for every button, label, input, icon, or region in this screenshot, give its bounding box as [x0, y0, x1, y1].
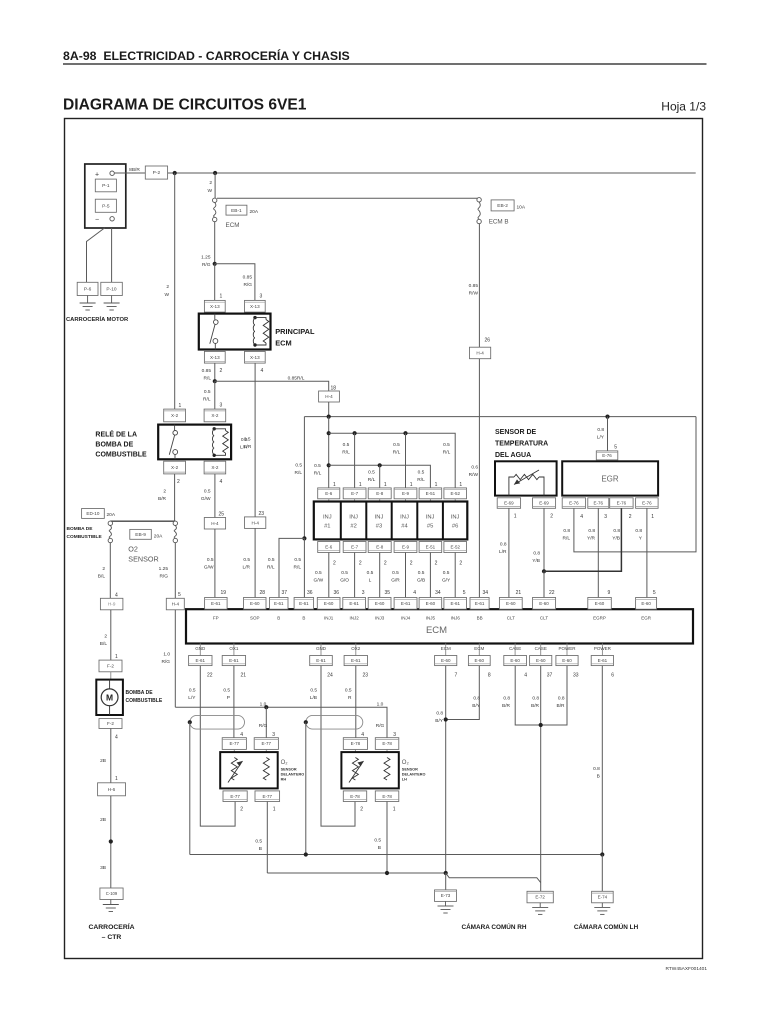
label 0.5 R/L B left — [267, 557, 275, 571]
svg-text:−: − — [95, 217, 99, 224]
label INJ3 — [375, 616, 385, 621]
svg-text:E-60: E-60 — [536, 658, 546, 663]
svg-text:G/B: G/B — [417, 578, 425, 584]
label CASE above — [535, 646, 547, 651]
connector E-73 — [435, 890, 457, 902]
ground E-73 — [438, 901, 454, 913]
label 0.5 R/L INJ4 — [393, 442, 401, 456]
connector E-60 CASE 4 — [504, 656, 527, 666]
injector INJ #3 label — [375, 515, 384, 530]
svg-text:0.5: 0.5 — [314, 463, 321, 469]
wire stub E-77 4 — [233, 749, 235, 752]
svg-text:2: 2 — [163, 489, 166, 495]
pin 1 E-69 — [514, 514, 517, 520]
svg-text:0.8: 0.8 — [500, 542, 507, 548]
O2 RH heater element — [228, 758, 243, 783]
label EGRP — [593, 616, 606, 621]
junction Y/B — [542, 569, 546, 573]
svg-text:0.85: 0.85 — [202, 368, 212, 374]
rail2 — [329, 433, 456, 488]
ECM pin 5 number — [653, 590, 656, 596]
svg-text:E-52: E-52 — [450, 545, 460, 550]
svg-text:0.8: 0.8 — [563, 528, 570, 534]
svg-text:CÁMARA COMÚN LH: CÁMARA COMÚN LH — [574, 922, 639, 931]
wire stub ECM to GND 22 — [199, 644, 201, 656]
pin 1 H-6 — [115, 776, 118, 782]
label 0.5 L/R right of X-2 — [244, 437, 252, 451]
svg-text:COMBUSTIBLE: COMBUSTIBLE — [95, 452, 147, 459]
page header text 8A-98 — [63, 48, 350, 63]
svg-text:7: 7 — [455, 673, 458, 679]
svg-text:H-9: H-9 — [108, 602, 116, 607]
svg-text:L/R: L/R — [243, 565, 251, 571]
connector X-13 top-right — [245, 300, 266, 312]
svg-text:34: 34 — [435, 590, 441, 596]
svg-text:21: 21 — [516, 590, 522, 596]
wire CASE37 chain — [540, 666, 542, 892]
svg-text:INJ: INJ — [323, 515, 332, 521]
svg-text:SENSOR: SENSOR — [281, 768, 297, 772]
svg-text:0.5: 0.5 — [295, 463, 302, 469]
svg-text:E-78: E-78 — [351, 741, 361, 746]
pin 4 E-76 — [580, 514, 583, 520]
connector X-2 bottom-left — [164, 461, 186, 474]
pin 2 E-6 — [333, 561, 336, 567]
diagram frame — [65, 119, 703, 959]
junction rail3 INJ3 — [378, 463, 382, 467]
svg-text:0.85: 0.85 — [243, 275, 253, 281]
svg-text:6: 6 — [611, 673, 614, 679]
wire X-13 pin2 to X-2 coil — [214, 381, 216, 409]
svg-text:2: 2 — [240, 807, 243, 813]
svg-text:3: 3 — [393, 732, 396, 738]
svg-text:0.8: 0.8 — [436, 711, 443, 717]
label O2 SENSOR — [128, 545, 158, 564]
svg-text:5: 5 — [178, 592, 181, 598]
label 0.8 B/R case37 — [531, 696, 540, 710]
svg-text:R/L: R/L — [294, 565, 302, 571]
label INJ2 — [349, 616, 359, 621]
svg-text:0.8: 0.8 — [588, 528, 595, 534]
pin 3 X-13 — [260, 294, 263, 300]
svg-text:E-60: E-60 — [375, 601, 385, 606]
connector E-61 ECM INJ6 — [444, 598, 467, 610]
svg-text:37: 37 — [547, 673, 553, 679]
pin 25 H-4 — [218, 512, 224, 518]
ECM pin 36 number — [333, 590, 339, 596]
svg-text:R/W: R/W — [469, 472, 479, 478]
svg-text:0.5: 0.5 — [255, 839, 262, 845]
pin 4 X-13 — [261, 368, 264, 374]
svg-text:Hoja 1/3: Hoja 1/3 — [661, 100, 706, 114]
label ECM inside — [426, 625, 447, 636]
svg-text:INJ3: INJ3 — [375, 616, 385, 621]
svg-text:E-61: E-61 — [229, 658, 239, 663]
svg-text:1: 1 — [384, 482, 387, 488]
ECM pin 3 number — [362, 590, 365, 596]
connector E-78 pin1 — [375, 791, 399, 802]
svg-text:2: 2 — [629, 514, 632, 520]
pin 8 number — [488, 673, 491, 679]
pin 5 H-4 — [178, 592, 181, 598]
water temp sensor box — [495, 461, 557, 495]
svg-text:DEL AGUA: DEL AGUA — [495, 452, 531, 459]
svg-text:ECM: ECM — [474, 646, 484, 651]
svg-text:E-72: E-72 — [535, 895, 545, 900]
junction rail EGR tap — [605, 415, 609, 419]
connector E-52 top — [444, 488, 467, 499]
label POWER above — [594, 646, 612, 651]
connector E-7 top — [343, 488, 366, 499]
ground C-109 — [103, 900, 119, 912]
wire H-4 18 to rail — [328, 402, 330, 417]
connector E-61 POWER 6 — [591, 656, 613, 666]
junction ECM grounds — [444, 717, 448, 721]
connector E-77 pin2 — [223, 791, 247, 802]
wire INJ1 chain — [328, 417, 330, 488]
svg-text:B: B — [277, 616, 280, 621]
svg-text:L: L — [369, 578, 372, 584]
svg-text:E-8: E-8 — [376, 491, 384, 496]
pin 1 X-13 — [220, 294, 223, 300]
pin 37 number — [547, 673, 553, 679]
wire E-8 to ECM — [379, 553, 381, 598]
svg-text:26: 26 — [484, 338, 490, 344]
wire to X-13 pin1 — [214, 264, 216, 301]
svg-text:0.5: 0.5 — [241, 437, 248, 443]
svg-text:#1: #1 — [324, 524, 330, 530]
svg-text:4: 4 — [240, 732, 243, 738]
wire B branch continue — [303, 538, 305, 597]
svg-text:1.0: 1.0 — [163, 652, 170, 658]
connector E-61 ECM B — [270, 598, 289, 610]
label 0.5 G/W — [201, 489, 211, 503]
pin 2 E-51 — [435, 561, 438, 567]
svg-text:0.85: 0.85 — [469, 283, 479, 289]
svg-text:E-69: E-69 — [539, 501, 549, 506]
svg-text:4: 4 — [115, 593, 118, 599]
svg-text:O2: O2 — [128, 545, 138, 554]
wire stub E-77 3 — [265, 749, 267, 752]
wire EGR pin1 — [646, 508, 648, 597]
svg-text:3: 3 — [362, 590, 365, 596]
svg-text:E-60: E-60 — [475, 658, 485, 663]
svg-text:2B: 2B — [100, 758, 106, 764]
svg-text:1: 1 — [435, 482, 438, 488]
label 0.5 R/L B right — [294, 557, 302, 571]
O2 LH heater element — [349, 758, 364, 783]
ECM box — [186, 609, 693, 643]
wire drop INJ3 — [379, 465, 381, 488]
pin 23 number — [362, 673, 368, 679]
connector H-4 pin25 — [204, 518, 225, 530]
pin 3 E-78 — [393, 732, 396, 738]
svg-text:9: 9 — [608, 590, 611, 596]
label 0.8 L/Y — [597, 427, 605, 441]
label 0.5 R/L INJ3 — [368, 470, 376, 484]
ECM pin 37 number — [281, 590, 287, 596]
svg-text:E-8: E-8 — [376, 545, 384, 550]
svg-text:1: 1 — [359, 482, 362, 488]
svg-text:PRINCIPAL: PRINCIPAL — [275, 327, 315, 336]
svg-text:#6: #6 — [452, 524, 458, 530]
label CLT — [540, 616, 548, 621]
label BOMBA DE COMBUSTIBLE — [126, 690, 163, 704]
svg-text:INJ1: INJ1 — [324, 616, 334, 621]
svg-text:E-76: E-76 — [617, 501, 627, 506]
label ECM above — [474, 646, 484, 651]
connector X-13 bottom-left — [204, 351, 225, 363]
wire R/G horizontal — [175, 707, 387, 738]
svg-text:INJ: INJ — [375, 515, 384, 521]
label 2 B/L — [98, 566, 106, 580]
label CAMARA COMUN LH — [574, 922, 639, 931]
connector X-2 top-right — [204, 409, 226, 422]
svg-text:#2: #2 — [350, 524, 356, 530]
svg-text:O₂: O₂ — [402, 760, 410, 766]
svg-text:3: 3 — [220, 403, 223, 409]
svg-text:E-76: E-76 — [594, 501, 604, 506]
wire battery minus vertical — [111, 228, 113, 282]
svg-text:B/R: B/R — [502, 703, 511, 709]
svg-text:E-6: E-6 — [325, 491, 333, 496]
svg-text:G/Y: G/Y — [442, 578, 451, 584]
connector E-69 pin2 — [533, 498, 556, 509]
battery plus terminal — [95, 171, 114, 179]
connector E-69 pin1 — [497, 498, 520, 509]
svg-text:4: 4 — [361, 732, 364, 738]
svg-text:E-61: E-61 — [299, 601, 309, 606]
label CAMARA COMUN RH — [461, 922, 526, 931]
ECM pin 34 number — [483, 590, 489, 596]
svg-text:X-13: X-13 — [250, 304, 260, 309]
wire battery+ to P-2 — [114, 172, 145, 174]
label 0.8 R/L egr — [563, 528, 571, 542]
junction fuel pump ground wire — [109, 839, 113, 843]
svg-text:0.8: 0.8 — [532, 696, 539, 702]
label 0.5 G/B INJ5 — [417, 570, 425, 584]
ground line lower — [267, 872, 445, 874]
connector E-76 pin3 — [588, 498, 609, 509]
svg-text:CLT: CLT — [507, 616, 515, 621]
svg-text:8: 8 — [488, 673, 491, 679]
svg-text:B: B — [302, 616, 305, 621]
label 2B upper — [100, 758, 106, 764]
svg-text:H-4: H-4 — [211, 521, 219, 526]
label 0.5 L/R on wire — [240, 437, 248, 451]
svg-text:1: 1 — [115, 654, 118, 660]
junction drain LH on line — [304, 852, 308, 856]
svg-text:1: 1 — [514, 514, 517, 520]
svg-text:3: 3 — [604, 514, 607, 520]
svg-text:E-51: E-51 — [426, 545, 436, 550]
fuse ED-10 label — [82, 509, 116, 519]
label SENSOR DELANTERO RH — [281, 768, 305, 782]
svg-text:E-78: E-78 — [382, 741, 392, 746]
wire X-2 pin4 down — [214, 474, 216, 518]
connector E-61 GND 22 — [189, 656, 212, 666]
fuse EB-1 label — [226, 205, 259, 215]
connector E-77 pin1 — [255, 791, 280, 802]
svg-text:0.8: 0.8 — [613, 528, 620, 534]
svg-text:0.5: 0.5 — [343, 442, 350, 448]
label 0.8 L/R — [499, 542, 507, 556]
label 0.85R/L — [288, 375, 305, 381]
pin 1 E-9 — [410, 482, 413, 488]
junction rail2 INJ2 — [353, 431, 357, 435]
pin 2 E-9 — [410, 561, 413, 567]
svg-text:5: 5 — [614, 445, 617, 451]
label INJ6 — [451, 616, 461, 621]
label OX1 above — [229, 646, 239, 651]
svg-text:2: 2 — [104, 634, 107, 640]
svg-text:W: W — [164, 292, 169, 298]
fusible link P-2 — [145, 166, 167, 179]
svg-text:W: W — [207, 188, 212, 194]
connector E-6 top — [318, 488, 340, 499]
wire O2 LH signal — [386, 802, 388, 874]
svg-text:5: 5 — [653, 590, 656, 596]
label 0.8 Y egr — [635, 528, 642, 542]
svg-text:INJ: INJ — [349, 515, 358, 521]
wire CLT2 lower — [543, 571, 545, 597]
label 0.5 L/Y — [188, 688, 196, 702]
pin 4 number — [524, 673, 527, 679]
ground P-6 — [80, 296, 96, 311]
svg-text:4: 4 — [413, 590, 416, 596]
svg-text:ECM: ECM — [275, 339, 291, 348]
relay X-2 switch — [169, 425, 177, 460]
label CARROCERIA CTR — [88, 922, 134, 941]
svg-text:G/W: G/W — [314, 578, 324, 584]
ECM pin 19 number — [221, 590, 227, 596]
svg-text:OX2: OX2 — [351, 646, 361, 651]
pin 2 E-77 — [240, 807, 243, 813]
svg-text:ED-10: ED-10 — [86, 511, 99, 516]
svg-text:C-109: C-109 — [106, 891, 118, 896]
svg-text:E-77: E-77 — [263, 794, 273, 799]
wire E-6 into injector — [328, 499, 330, 502]
label B — [277, 616, 280, 621]
wire to fuse EB-1 — [214, 173, 216, 198]
wire E-7 to ECM — [354, 553, 356, 598]
svg-text:R/L: R/L — [295, 470, 303, 476]
svg-text:DIAGRAMA DE CIRCUITOS 6VE1: DIAGRAMA DE CIRCUITOS 6VE1 — [63, 97, 307, 114]
connector E-8 top — [368, 488, 391, 499]
svg-text:0.5: 0.5 — [374, 838, 381, 844]
connector E-60 ECM 8 — [468, 656, 490, 666]
svg-text:0.5: 0.5 — [268, 557, 275, 563]
svg-text:H-4: H-4 — [476, 351, 484, 356]
connector E-60 ECM INJ3 — [368, 598, 391, 610]
svg-text:B/R: B/R — [158, 496, 167, 502]
svg-text:E-60: E-60 — [506, 601, 516, 606]
pin 1 E-7 — [359, 482, 362, 488]
svg-text:R/L: R/L — [417, 477, 425, 483]
svg-text:E-61: E-61 — [475, 601, 485, 606]
ECM pin 28 number — [259, 590, 265, 596]
svg-text:E-9: E-9 — [402, 491, 410, 496]
connector H-9 — [100, 598, 123, 610]
label 8B/R — [129, 167, 140, 173]
wire stub ECM to ECM 8 — [478, 644, 480, 656]
junction POWER6 on line — [600, 852, 604, 856]
connector X-13 bottom-right — [245, 351, 266, 363]
ECM pin 9 number — [608, 590, 611, 596]
wire GND L/B — [321, 666, 355, 827]
pin 7 number — [455, 673, 458, 679]
junction X-13 pin2 — [213, 379, 217, 383]
wire X-2 pin2 down — [174, 474, 176, 521]
svg-text:ECM: ECM — [441, 646, 451, 651]
label 0.5 R/L INJ5 — [417, 470, 425, 484]
injector divider 3 — [391, 502, 393, 540]
O2 sensor RH box — [220, 752, 278, 788]
svg-text:RELÉ DE LA: RELÉ DE LA — [95, 430, 137, 439]
svg-text:X-13: X-13 — [210, 355, 220, 360]
svg-text:E-51: E-51 — [426, 491, 436, 496]
wire EGR Y/B bold — [544, 508, 621, 571]
svg-text:P-6: P-6 — [84, 287, 92, 293]
svg-text:E-9: E-9 — [402, 545, 410, 550]
wire H-6 to C-109 — [110, 796, 112, 888]
connector E-61 GND 24 — [310, 656, 333, 666]
svg-text:X-2: X-2 — [171, 413, 179, 418]
svg-text:R/L: R/L — [443, 450, 451, 456]
svg-text:R/L: R/L — [314, 471, 322, 477]
fuse EB-1 — [213, 198, 217, 222]
pin 3 X-2 — [220, 403, 223, 409]
svg-text:34: 34 — [483, 590, 489, 596]
svg-text:4: 4 — [220, 479, 223, 485]
wire link EB-1 EB-2 — [217, 197, 479, 199]
ECM pin 22 number — [549, 590, 555, 596]
svg-text:E-61: E-61 — [316, 658, 326, 663]
label 0.5 P — [223, 688, 230, 702]
svg-text:0.5: 0.5 — [341, 570, 348, 576]
connector E-72 — [527, 891, 553, 903]
ECM pin 4 number — [413, 590, 416, 596]
svg-text:3B: 3B — [100, 865, 106, 871]
svg-text:BOMBA DE: BOMBA DE — [95, 442, 133, 449]
connector E-61 OX2 23 — [344, 656, 367, 666]
svg-text:DELANTERO: DELANTERO — [281, 773, 305, 777]
wire ED-10 out — [109, 543, 111, 599]
wire stub ECM to ECM 7 — [445, 644, 447, 656]
svg-text:G/W: G/W — [204, 565, 214, 571]
wire stub E-78 3 — [386, 749, 388, 752]
svg-text:4: 4 — [524, 673, 527, 679]
svg-text:Y/R: Y/R — [587, 536, 596, 542]
rail R/L main — [304, 416, 696, 418]
svg-text:INJ: INJ — [451, 515, 460, 521]
pin 1 E-6 — [333, 482, 336, 488]
svg-text:24: 24 — [327, 673, 333, 679]
pin 21 number — [241, 673, 247, 679]
label 0.6 R/W — [469, 465, 479, 479]
label 0.5 R — [345, 688, 352, 702]
junction EB-1 tap — [213, 171, 217, 175]
svg-text:ECM B: ECM B — [489, 219, 509, 226]
label 0.8 Y/B clt — [532, 551, 540, 565]
svg-text:0.5: 0.5 — [315, 570, 322, 576]
wire R/G feed — [174, 610, 176, 707]
injector divider 5 — [442, 502, 444, 540]
fuse EB-9 label — [130, 529, 163, 539]
svg-text:2: 2 — [410, 561, 413, 567]
connector F-2 top — [99, 660, 122, 672]
svg-text:EGR: EGR — [641, 616, 652, 621]
